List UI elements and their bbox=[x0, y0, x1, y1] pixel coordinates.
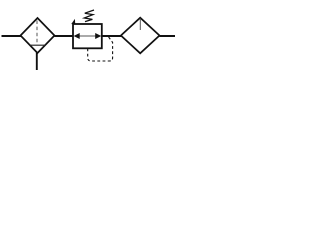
regulator R1: pilot sensing dashed line bbox=[88, 37, 113, 61]
lubricator L1: diamond body bbox=[121, 18, 160, 54]
filter F1: drain stem bbox=[36, 53, 38, 71]
regulator R1: left arrowhead bbox=[74, 33, 80, 39]
filter F1: filter element dashed centerline bbox=[36, 21, 38, 46]
regulator R1: flow path shaft bbox=[79, 35, 97, 37]
wire: regulator R1 to lubricator L1 bbox=[102, 35, 122, 37]
filter F1: diamond body bbox=[21, 18, 55, 53]
regulator R1: right arrowhead bbox=[95, 33, 101, 39]
wire: outlet line (lubricator L1 to right) bbox=[160, 35, 176, 37]
regulator R1: spring zigzag bbox=[84, 10, 94, 22]
lubricator L1: oil drip line bbox=[139, 19, 141, 31]
wire: inlet line (left edge to filter F1) bbox=[2, 35, 22, 37]
wire: filter F1 to regulator R1 bbox=[55, 35, 74, 37]
regulator R1: adjustment arrowhead at box corner bbox=[71, 19, 75, 24]
filter F1: condensate level chord bbox=[29, 44, 46, 46]
regulator R1: valve body box bbox=[73, 24, 102, 48]
